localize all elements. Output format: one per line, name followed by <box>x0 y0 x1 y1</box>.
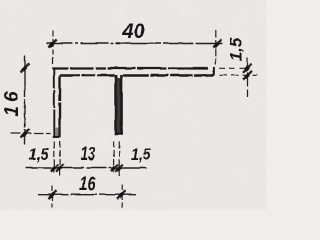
svg-text:13: 13 <box>80 144 95 165</box>
svg-text:1,5: 1,5 <box>29 146 50 164</box>
svg-text:16: 16 <box>2 87 23 116</box>
svg-text:40: 40 <box>121 20 144 43</box>
svg-text:16: 16 <box>79 174 95 195</box>
svg-text:1,5: 1,5 <box>131 146 152 164</box>
svg-text:1,5: 1,5 <box>226 37 245 61</box>
